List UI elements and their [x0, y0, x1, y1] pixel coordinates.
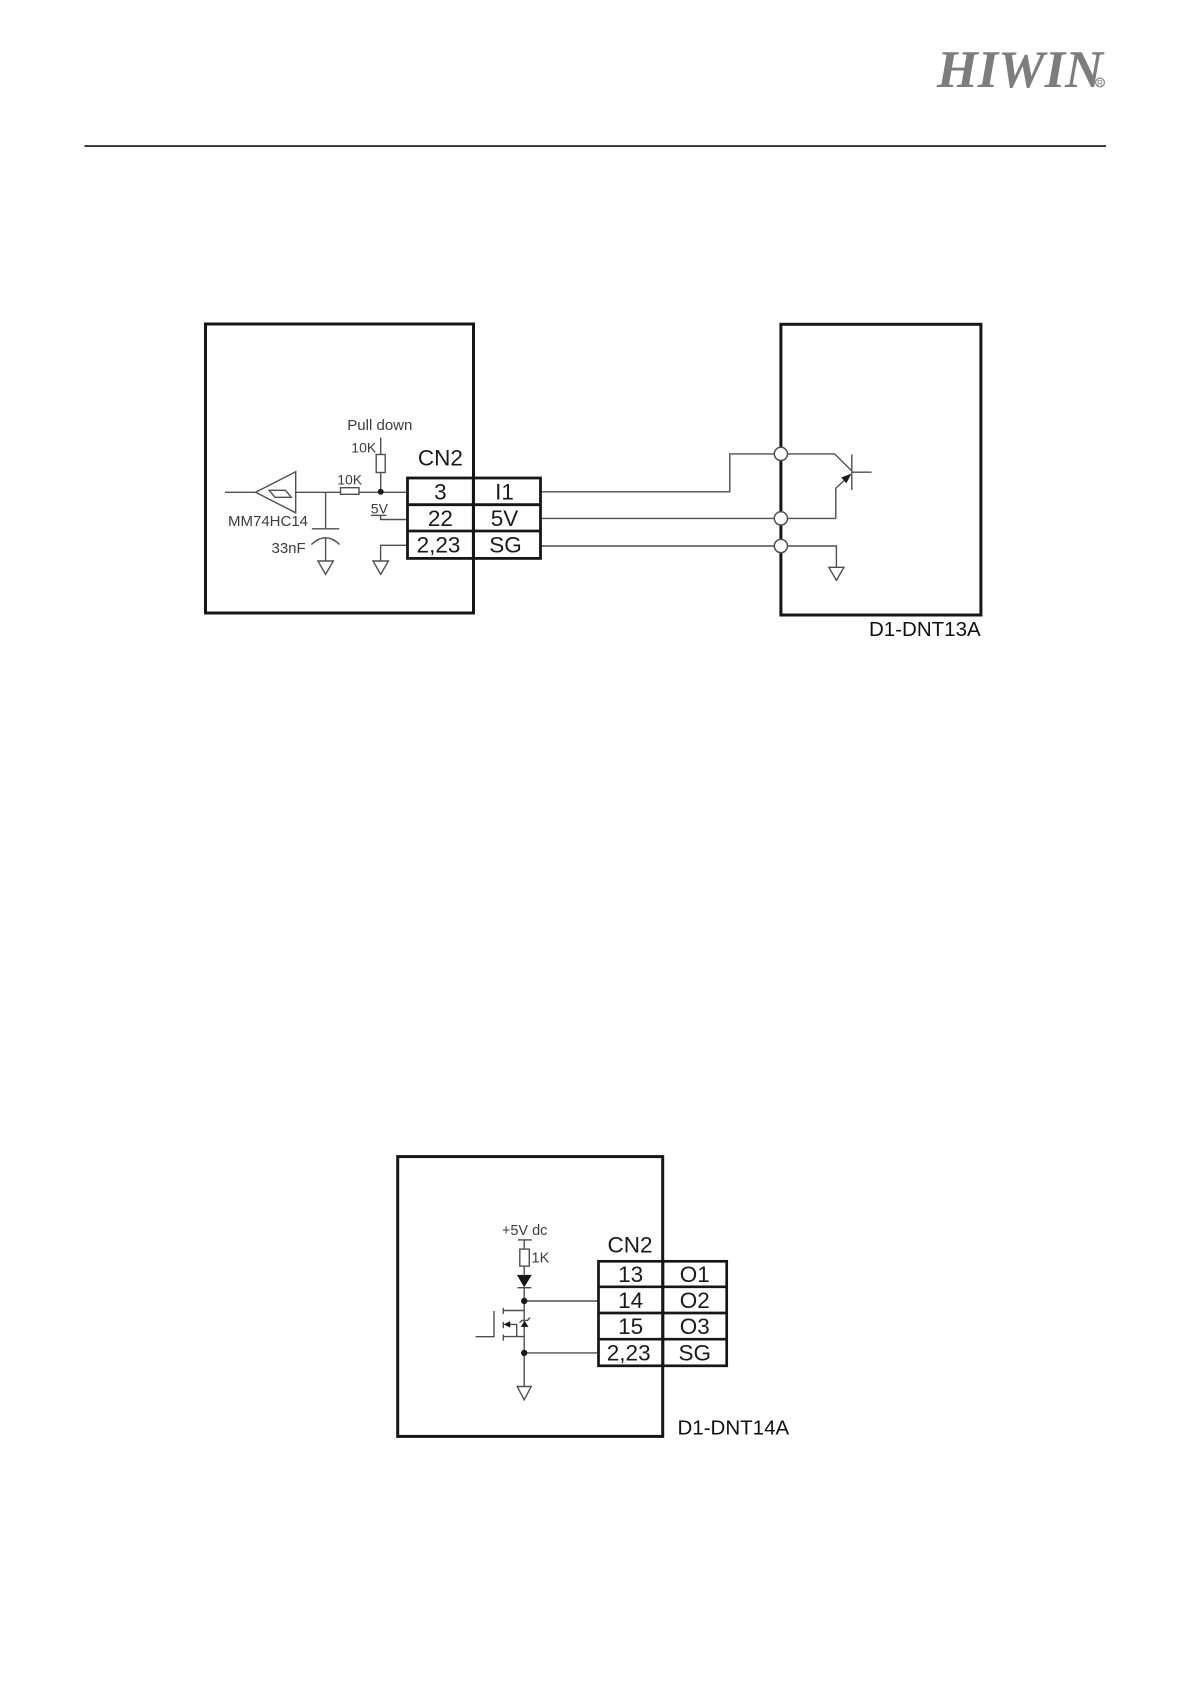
- svg-text:O3: O3: [680, 1314, 710, 1339]
- svg-text:MM74HC14: MM74HC14: [228, 513, 308, 530]
- svg-text:5V: 5V: [491, 506, 519, 531]
- svg-text:I1: I1: [495, 480, 514, 505]
- svg-text:2,23: 2,23: [607, 1341, 651, 1366]
- svg-text:33nF: 33nF: [272, 540, 306, 557]
- svg-text:1K: 1K: [532, 1251, 550, 1267]
- svg-text:10K: 10K: [337, 471, 363, 487]
- svg-text:D1-DNT13A: D1-DNT13A: [869, 618, 981, 641]
- svg-text:R: R: [1097, 78, 1103, 88]
- svg-text:O1: O1: [680, 1262, 710, 1287]
- svg-text:22: 22: [428, 506, 453, 531]
- svg-text:10K: 10K: [351, 439, 377, 455]
- svg-text:O2: O2: [680, 1288, 710, 1313]
- svg-text:D1-DNT14A: D1-DNT14A: [678, 1417, 790, 1440]
- svg-text:3: 3: [434, 480, 447, 505]
- svg-text:15: 15: [618, 1314, 643, 1339]
- svg-text:SG: SG: [489, 533, 522, 558]
- svg-text:CN2: CN2: [418, 446, 463, 471]
- svg-text:+5V dc: +5V dc: [502, 1223, 548, 1239]
- svg-text:5V: 5V: [371, 500, 389, 516]
- svg-text:SG: SG: [679, 1341, 712, 1366]
- svg-text:2,23: 2,23: [417, 533, 461, 558]
- svg-text:13: 13: [618, 1262, 643, 1287]
- svg-text:14: 14: [618, 1288, 643, 1313]
- svg-text:CN2: CN2: [607, 1232, 652, 1257]
- svg-text:HIWIN: HIWIN: [936, 41, 1105, 99]
- svg-text:Pull down: Pull down: [347, 417, 412, 434]
